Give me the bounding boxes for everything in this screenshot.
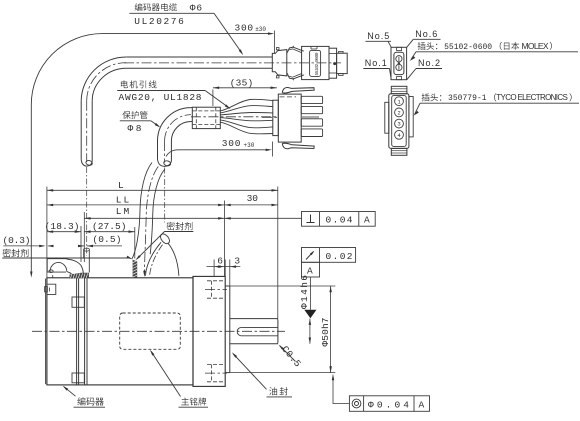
tyco end view bottom cap <box>391 148 407 155</box>
svg-text:(18.3): (18.3) <box>45 221 80 232</box>
svg-text:3: 3 <box>234 255 240 266</box>
label 密封剂 (left) <box>3 249 29 257</box>
svg-text:Φ6: Φ6 <box>190 3 203 14</box>
svg-text:30: 30 <box>247 193 259 204</box>
feature control frame perpendicularity 0.04 A <box>302 212 376 227</box>
svg-text:No.1: No.1 <box>365 58 387 68</box>
motor body outline <box>47 278 193 385</box>
motor body rear face seam <box>84 278 86 385</box>
encoder cable exit boot (sealant) <box>46 259 48 272</box>
molex connector boot <box>272 50 287 76</box>
svg-text:No.6: No.6 <box>415 29 437 39</box>
label 插头：350779-1（TYCO ELECTRONICS） <box>422 93 442 101</box>
svg-text:A: A <box>364 215 370 226</box>
protective tube 保护管 <box>192 107 220 128</box>
label 油封 oil seal <box>233 354 266 390</box>
motor lead exit boot elbow <box>159 232 172 245</box>
encoder cable slack line <box>31 34 268 273</box>
cable clamp bottom <box>72 373 84 383</box>
svg-text:A: A <box>307 265 313 276</box>
svg-text:+30: +30 <box>244 142 255 149</box>
tyco end view side tabs <box>385 102 389 133</box>
tyco end view body <box>389 94 409 149</box>
svg-text:L: L <box>118 180 124 191</box>
svg-text:55102-0600: 55102-0600 <box>444 43 492 52</box>
front flange <box>193 276 225 386</box>
cable clamp top <box>72 297 84 307</box>
tyco connector front plate <box>273 100 279 135</box>
label 插头：55102-0600（日本MOLEX） <box>418 42 438 50</box>
motor centerline <box>32 330 285 332</box>
tyco connector housing <box>278 94 301 142</box>
svg-text:Φ14h6: Φ14h6 <box>299 275 310 309</box>
svg-text:(0.3): (0.3) <box>3 235 31 246</box>
svg-text:350779-1: 350779-1 <box>448 94 487 103</box>
leader encoder cable label <box>214 13 242 52</box>
shaft Φ14 <box>230 318 278 320</box>
svg-text:(27.5): (27.5) <box>92 221 127 232</box>
label motor leads 电机引线 <box>121 80 157 88</box>
svg-text:Φ50h7: Φ50h7 <box>320 318 331 347</box>
svg-text:±30: ±30 <box>255 26 266 33</box>
motor lead slack cable lines <box>132 163 152 259</box>
label encoder cable 编码器电缆 Φ6 <box>135 3 177 11</box>
encoder cable stub at motor exit <box>83 250 85 259</box>
dimension 300+30 (motor lead) <box>166 150 266 157</box>
svg-text:No.5: No.5 <box>367 31 389 41</box>
tyco connector pins <box>301 96 322 103</box>
encoder cover seam <box>76 278 78 385</box>
dimension Φ14h6 <box>309 319 311 344</box>
svg-text:LM: LM <box>116 206 130 217</box>
label protective tube 保护管 Φ8 <box>123 111 148 119</box>
svg-text:2: 2 <box>397 110 400 117</box>
svg-text:3: 3 <box>397 121 400 128</box>
svg-text:300: 300 <box>235 22 254 33</box>
sealant hatch under encoder boot <box>70 273 89 279</box>
lead wires fan-out <box>220 99 272 111</box>
motor lead cable centerline <box>191 116 278 118</box>
concentricity leader <box>333 376 349 404</box>
tyco connector latch top <box>282 87 314 93</box>
svg-text:(0.5): (0.5) <box>92 234 121 245</box>
encoder cable Φ6 <box>80 101 82 160</box>
svg-text:A: A <box>419 399 425 410</box>
svg-text:6: 6 <box>217 255 223 266</box>
svg-text:No.2: No.2 <box>418 58 440 68</box>
flange spigot Φ50 <box>225 285 230 287</box>
dimension 300±30 (encoder cable) <box>268 32 274 35</box>
svg-text:LL: LL <box>116 195 130 206</box>
tyco end view numbered contacts <box>395 97 404 106</box>
label 密封剂 (right) <box>167 222 193 230</box>
keyway <box>241 326 278 328</box>
label 编码器 encoder <box>64 387 76 396</box>
nameplate 主铭牌 (dashed) <box>120 313 181 349</box>
molex connector latch bottom <box>287 73 304 79</box>
molex connector front <box>337 53 348 73</box>
label 主铭牌 nameplate <box>151 351 181 396</box>
molex end view body <box>391 47 407 79</box>
motor lead cable <box>157 141 159 159</box>
tyco connector latch bottom <box>282 143 314 149</box>
molex connector mid section <box>329 48 337 78</box>
molex connector latch top <box>287 47 304 53</box>
rear sealant line <box>45 279 47 385</box>
svg-text:0.04: 0.04 <box>326 215 353 226</box>
chamfer C0.5 <box>280 346 296 362</box>
rear connector bump <box>47 284 55 294</box>
svg-text:TYCO ELECTRONICS: TYCO ELECTRONICS <box>496 93 568 102</box>
svg-text:300: 300 <box>222 138 241 149</box>
datum box A <box>302 262 320 277</box>
dimension Φ50h7 <box>230 285 335 287</box>
tyco end view top cap <box>391 86 407 93</box>
feature control frame concentricity Φ0.04 A <box>349 396 429 412</box>
extension lines <box>46 187 48 278</box>
tyco connector centerline <box>262 116 278 118</box>
feature control frame circular runout 0.02 <box>302 248 356 263</box>
svg-text:AWG20, UL1828: AWG20, UL1828 <box>119 92 202 103</box>
svg-text:(35): (35) <box>230 78 254 89</box>
svg-text:MOLEX: MOLEX <box>522 41 549 51</box>
molex connector body <box>302 46 329 79</box>
datum leader and triangle <box>309 277 311 310</box>
sealant hatch under lead boot <box>133 260 138 278</box>
molex end view contacts <box>396 56 402 62</box>
encoder cable centerline <box>124 62 341 64</box>
flange mounting holes (hidden) <box>207 280 225 282</box>
svg-text:0.02: 0.02 <box>326 251 353 262</box>
svg-text:55102-0600: 55102-0600 <box>314 52 320 75</box>
